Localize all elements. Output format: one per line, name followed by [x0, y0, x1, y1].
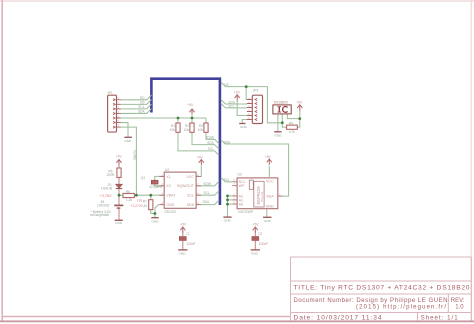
svg-text:+1,27V: +1,27V: [130, 204, 142, 208]
svg-text:C2: C2: [258, 232, 262, 236]
svg-text:10k: 10k: [198, 128, 204, 132]
svg-text:24C32WP: 24C32WP: [238, 210, 254, 214]
svg-text:SDA: SDA: [266, 195, 274, 199]
svg-text:GND: GND: [251, 251, 259, 255]
svg-text:U2: U2: [165, 168, 169, 172]
svg-text:rechargeable: rechargeable: [90, 213, 109, 217]
svg-text:X1: X1: [166, 175, 170, 179]
svg-text:Date: 10/03/2017 11:34: Date: 10/03/2017 11:34: [294, 314, 382, 321]
svg-text:TITLE: Tiny RTC DS1307 + AT24: TITLE: Tiny RTC DS1307 + AT24C32 + DS18B…: [294, 285, 470, 292]
svg-text:SDA: SDA: [224, 141, 231, 145]
svg-text:U3: U3: [238, 173, 242, 177]
svg-text:4,7k: 4,7k: [289, 130, 296, 134]
svg-text:SDA: SDA: [187, 203, 195, 207]
svg-text:100nF: 100nF: [186, 242, 195, 246]
svg-text:1,2k: 1,2k: [126, 198, 133, 202]
svg-text:SCL: SCL: [228, 104, 234, 108]
svg-text:R6: R6: [126, 190, 130, 194]
svg-text:GND: GND: [179, 251, 187, 255]
svg-text:SDA: SDA: [138, 110, 145, 114]
svg-text:(2015) http://pleguen.fr/: (2015) http://pleguen.fr/: [356, 305, 446, 311]
svg-text:+5V: +5V: [253, 223, 260, 227]
svg-text:SDA: SDA: [203, 200, 210, 204]
svg-text:SCL: SCL: [138, 105, 144, 109]
svg-text:+5V: +5V: [116, 154, 123, 158]
svg-text:GND: GND: [274, 133, 282, 137]
svg-text:10k: 10k: [170, 128, 176, 132]
svg-text:VCC: VCC: [266, 180, 274, 184]
svg-text:P4 x A4: P4 x A4: [260, 191, 264, 202]
svg-text:SDA: SDA: [207, 141, 214, 145]
svg-text:1N4148: 1N4148: [101, 186, 113, 190]
svg-text:Q1: Q1: [141, 176, 146, 180]
svg-text:+3,78V: +3,78V: [100, 194, 113, 198]
svg-text:+5V: +5V: [180, 223, 187, 227]
svg-text:+5V: +5V: [296, 100, 303, 104]
svg-text:SCL: SCL: [208, 147, 214, 151]
svg-text:DS1307: DS1307: [165, 210, 177, 214]
svg-text:+5V: +5V: [234, 91, 241, 95]
svg-text:DS18B20: DS18B20: [274, 100, 288, 104]
svg-text:A0: A0: [239, 203, 243, 207]
svg-text:X2: X2: [166, 184, 170, 188]
svg-text:+5V: +5V: [197, 155, 204, 159]
svg-text:GND: GND: [266, 204, 274, 208]
svg-text:VBAT1: VBAT1: [133, 150, 137, 160]
svg-text:GND: GND: [166, 203, 174, 207]
svg-text:100R: 100R: [106, 173, 115, 177]
svg-text:100nF: 100nF: [259, 242, 268, 246]
svg-text:GND: GND: [124, 139, 132, 143]
svg-text:SCL: SCL: [187, 194, 194, 198]
svg-text:SQW: SQW: [206, 136, 214, 140]
svg-text:TP1: TP1: [137, 199, 143, 203]
svg-text:1.0: 1.0: [455, 305, 464, 311]
svg-text:GND: GND: [224, 219, 232, 223]
svg-text:LIR2032: LIR2032: [97, 203, 110, 207]
svg-text:VCC: VCC: [186, 175, 194, 179]
svg-text:SQW: SQW: [203, 182, 211, 186]
svg-text:JP1: JP1: [107, 91, 113, 95]
svg-text:VBAT: VBAT: [166, 194, 176, 198]
svg-text:DS: DS: [224, 83, 228, 87]
svg-text:SCL: SCL: [224, 178, 230, 182]
svg-text:GND: GND: [264, 219, 272, 223]
svg-text:C1: C1: [186, 232, 190, 236]
svg-text:GND: GND: [152, 219, 160, 223]
svg-text:Document Number: Design by Phi: Document Number: Design by Philippe LE G…: [294, 298, 448, 304]
svg-text:JP2: JP2: [253, 88, 259, 92]
svg-text:R4: R4: [289, 122, 293, 126]
svg-text:SQW/OUT: SQW/OUT: [177, 184, 195, 188]
svg-text:DS: DS: [140, 101, 144, 105]
svg-text:2,2k: 2,2k: [141, 204, 148, 208]
svg-text:+5V: +5V: [187, 103, 194, 107]
svg-text:SCL: SCL: [204, 191, 210, 195]
svg-text:10k: 10k: [184, 128, 190, 132]
svg-text:SQ: SQ: [140, 96, 145, 100]
svg-text:WP: WP: [239, 184, 245, 188]
svg-text:+5V: +5V: [265, 155, 272, 159]
svg-text:REV:: REV:: [451, 298, 465, 304]
svg-text:GND: GND: [115, 221, 123, 225]
svg-text:Sheet: 1/1: Sheet: 1/1: [421, 314, 459, 321]
svg-text:GND: GND: [240, 125, 248, 129]
